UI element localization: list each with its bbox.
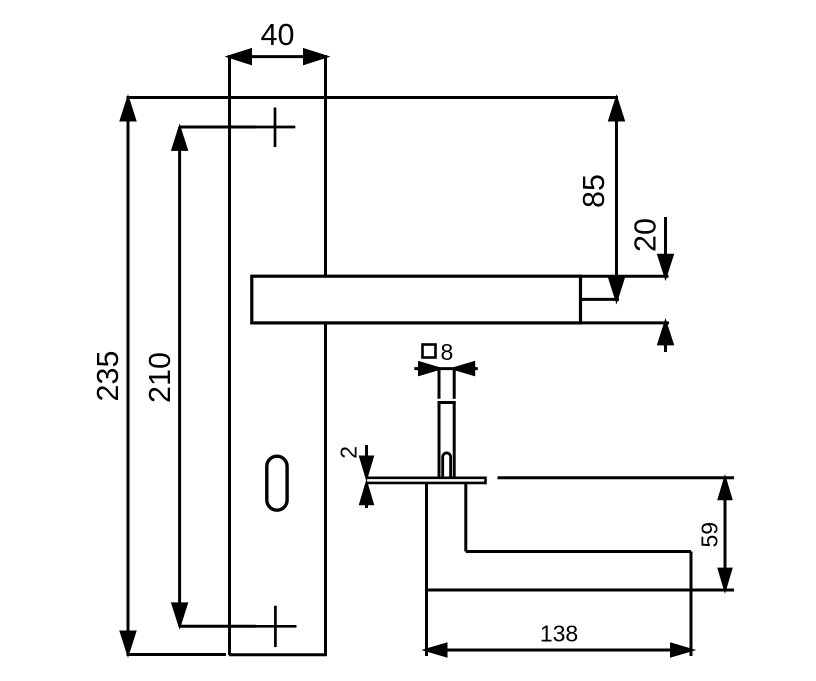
plate bottom extension line to 235 dim: [127, 653, 227, 656]
dimension 138 arrows: [427, 644, 447, 656]
dimension 210 arrows: [173, 128, 186, 149]
handle neck right edge: [464, 483, 467, 552]
backplate cross-section top line: [366, 476, 485, 479]
plate bottom edge: [229, 653, 327, 656]
handle grip right edge (with 138 extension below): [690, 552, 693, 657]
dimension 59 line: [724, 478, 727, 590]
handle top edge extension right: [581, 275, 669, 278]
svg-text:59: 59: [696, 522, 722, 548]
dimension 85 arrows: [610, 99, 623, 120]
dimension 235 arrows: [121, 99, 134, 120]
dimension 235 line: [127, 98, 130, 655]
svg-text:40: 40: [261, 18, 295, 52]
plate top edge with extension lines: [127, 96, 619, 99]
svg-text:138: 138: [540, 621, 578, 647]
screw mark cross bottom: [255, 606, 297, 647]
dimension 2 arrows: [361, 457, 373, 477]
dimension 8 arrows: [420, 363, 440, 375]
label square-8 symbol: [423, 345, 436, 358]
dimension 59 arrows: [719, 479, 731, 499]
dimension 210 extension top: [180, 126, 256, 129]
svg-text:8: 8: [441, 339, 454, 365]
handle neck left edge (with 138 extension below): [425, 483, 428, 656]
handle grip top edge: [466, 550, 691, 553]
backplate cross-section bottom line: [366, 482, 487, 485]
dimension 2 upper line: [365, 445, 368, 477]
dimension 59 extension top: [498, 476, 735, 479]
spindle extension stubs: [438, 370, 441, 399]
svg-text:210: 210: [143, 352, 177, 403]
plate left edge (with 40-dim extension above): [228, 55, 231, 655]
handle bottom edge extension right: [581, 321, 670, 324]
svg-text:2: 2: [336, 446, 362, 459]
svg-text:85: 85: [577, 174, 611, 208]
spring slot U shape: [443, 453, 451, 479]
handle centerline tick: [582, 298, 619, 301]
dimension 40 line: [230, 55, 326, 58]
dimension 40 arrows: [230, 50, 251, 63]
dimension 8 line: [414, 367, 478, 370]
handle front view rectangle: [252, 276, 581, 323]
svg-text:20: 20: [629, 218, 663, 252]
backplate cross-section right cap: [484, 477, 487, 485]
dimension 85 line: [615, 98, 618, 300]
dimension 20 arrows: [659, 255, 672, 276]
spindle side view: [438, 403, 441, 478]
dimension 138 line: [427, 649, 692, 652]
dimension 210 line: [178, 127, 181, 626]
handle grip bottom edge: [427, 589, 692, 592]
dimension 210 extension bottom: [180, 625, 256, 628]
plate right edge lower segment: [324, 323, 327, 655]
dimension 59 extension bottom: [691, 589, 734, 592]
dimension 20 lower line: [664, 323, 667, 352]
dimension 20 upper line: [664, 217, 667, 276]
plate right edge upper segment (with 40-dim extension above): [324, 55, 327, 276]
svg-text:235: 235: [91, 351, 125, 402]
keyhole slot: [267, 456, 287, 510]
dimension 2 lower line: [365, 484, 368, 508]
screw mark cross top: [255, 108, 296, 148]
